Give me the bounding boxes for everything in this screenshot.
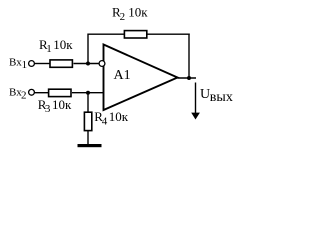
resistor R2: [124, 31, 146, 38]
wire output: [178, 77, 197, 79]
svg-text:1: 1: [46, 43, 52, 55]
svg-text:2: 2: [120, 11, 126, 23]
svg-text:10к: 10к: [53, 37, 73, 52]
wire R1 to inverting input: [74, 63, 100, 65]
resistor R1: [50, 60, 72, 67]
ground: [78, 144, 102, 147]
wire junction down to R4: [87, 93, 89, 113]
svg-text:4: 4: [102, 115, 108, 127]
svg-text:Вх: Вх: [9, 56, 22, 68]
terminal Вх1: [29, 61, 35, 67]
op-amp A1: [104, 45, 178, 111]
wire input2 to R3: [35, 92, 49, 94]
wire input1 to R1: [35, 63, 51, 65]
wire R3 to non-inverting input: [72, 92, 104, 94]
node junction inverting input: [86, 62, 90, 66]
svg-text:10к: 10к: [128, 5, 148, 20]
arrow Uвых: [195, 83, 197, 115]
svg-text:вых: вых: [210, 90, 233, 105]
wire feedback vertical right: [188, 34, 190, 79]
resistor R4: [84, 112, 91, 130]
wire R4 to ground: [87, 131, 89, 145]
wire top feedback horizontal right segment: [147, 33, 190, 35]
svg-text:2: 2: [21, 89, 27, 101]
wire feedback vertical left: [87, 34, 89, 64]
svg-text:3: 3: [45, 103, 51, 115]
terminal Вх2: [29, 89, 35, 95]
resistor R3: [49, 89, 71, 96]
svg-text:1: 1: [22, 59, 28, 71]
node output junction: [187, 76, 191, 80]
svg-text:U: U: [200, 87, 210, 102]
wire top feedback horizontal left segment: [88, 33, 125, 35]
node junction non-inverting input: [86, 91, 90, 95]
svg-text:10к: 10к: [109, 109, 129, 124]
inverting input bubble: [99, 61, 105, 67]
svg-text:10к: 10к: [52, 97, 72, 112]
svg-text:А1: А1: [114, 68, 131, 83]
